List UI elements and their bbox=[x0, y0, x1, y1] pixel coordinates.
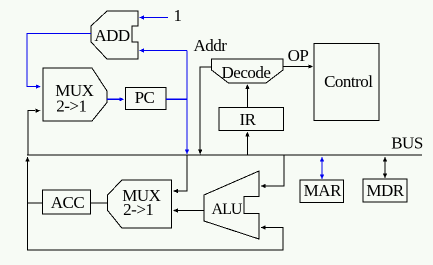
svg-text:Decode: Decode bbox=[222, 63, 271, 82]
svg-text:ACC: ACC bbox=[51, 193, 85, 212]
svg-text:BUS: BUS bbox=[391, 134, 423, 153]
svg-text:ADD: ADD bbox=[94, 26, 130, 45]
svg-text:MAR: MAR bbox=[304, 181, 342, 200]
svg-text:MDR: MDR bbox=[366, 181, 404, 200]
svg-text:ALU: ALU bbox=[212, 201, 243, 218]
svg-text:OP: OP bbox=[288, 46, 309, 65]
svg-text:2->1: 2->1 bbox=[123, 200, 153, 219]
svg-text:IR: IR bbox=[240, 110, 257, 129]
svg-text:2->1: 2->1 bbox=[56, 97, 86, 116]
svg-text:1: 1 bbox=[174, 6, 182, 25]
svg-text:Addr: Addr bbox=[194, 36, 228, 55]
svg-text:PC: PC bbox=[135, 88, 155, 107]
svg-text:Control: Control bbox=[324, 72, 373, 91]
